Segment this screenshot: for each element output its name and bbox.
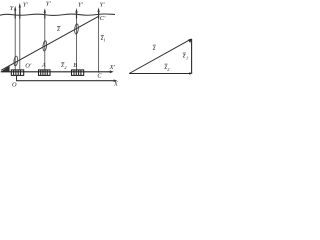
svg-text:Y′: Y′ xyxy=(46,0,52,7)
svg-text:Y′: Y′ xyxy=(23,1,29,8)
svg-text:2: 2 xyxy=(167,67,169,72)
svg-text:2: 2 xyxy=(64,65,66,70)
svg-text:X′: X′ xyxy=(109,64,116,71)
svg-text:z: z xyxy=(152,45,156,52)
svg-text:O′: O′ xyxy=(25,63,32,70)
svg-text:A: A xyxy=(41,62,46,69)
svg-text:C′: C′ xyxy=(100,15,106,22)
svg-text:Y′: Y′ xyxy=(78,1,84,8)
svg-text:Y′: Y′ xyxy=(100,1,106,8)
svg-text:O: O xyxy=(12,81,17,88)
svg-text:1: 1 xyxy=(103,38,105,43)
svg-text:1: 1 xyxy=(186,56,188,61)
svg-text:B: B xyxy=(73,62,77,69)
